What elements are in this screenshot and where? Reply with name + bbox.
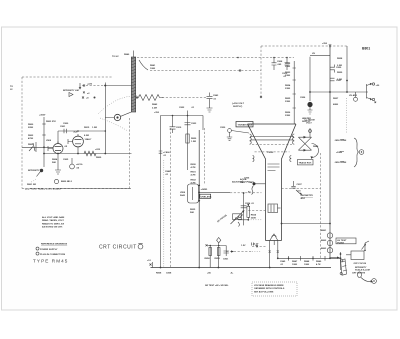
rotary switch wafer <box>340 259 347 275</box>
svg-text:-1850 +DRN: -1850 +DRN <box>334 140 347 142</box>
svg-text:R841: R841 <box>150 64 156 67</box>
svg-text:330K: 330K <box>285 88 291 90</box>
junction dot <box>104 85 106 87</box>
wire dashed y97 row <box>82 92 96 100</box>
wire bottom edge label FRONT PANEL CONT BOARD <box>25 188 131 191</box>
heater rail y258 <box>277 257 341 259</box>
boxed note typical voltage <box>236 122 253 127</box>
svg-text:VOLTAGE READINGS WERE: VOLTAGE READINGS WERE <box>254 284 284 287</box>
tube V800B <box>73 132 92 147</box>
grid cap connection <box>244 178 266 195</box>
svg-text:POINT: POINT <box>337 242 344 244</box>
svg-text:4.7K: 4.7K <box>316 263 321 266</box>
label C821 on x161 <box>159 151 171 157</box>
resistor R840 HV bleeder hatched strip <box>112 51 136 113</box>
svg-text:B863: B863 <box>321 248 327 250</box>
svg-text:C845: C845 <box>280 260 286 263</box>
reference drawings block <box>36 243 68 257</box>
tube V859 envelope box <box>180 184 199 203</box>
svg-text:HV ADJ: HV ADJ <box>349 94 358 97</box>
svg-text:R823: R823 <box>285 72 291 74</box>
labels under cathode <box>52 158 69 164</box>
svg-text:CRT LIGHTS: CRT LIGHTS <box>352 273 366 275</box>
svg-text:PLUG-IN CONNECTORS: PLUG-IN CONNECTORS <box>40 254 66 256</box>
svg-text:2.2M: 2.2M <box>152 107 157 109</box>
svg-text:GEOMETRY: GEOMETRY <box>301 195 314 197</box>
svg-text:C822: C822 <box>179 107 185 109</box>
dashed feeder x261 <box>260 46 262 97</box>
svg-text:+350: +350 <box>322 43 328 45</box>
svg-text:B800 NE-2: B800 NE-2 <box>61 181 73 183</box>
svg-text:R805: R805 <box>28 144 34 146</box>
wire cathode rail y153 <box>44 147 132 155</box>
svg-text:C830: C830 <box>220 127 226 129</box>
label adjusted-to leader <box>232 181 254 184</box>
svg-text:-1850 +DRN: -1850 +DRN <box>334 162 347 164</box>
svg-text:TRACE ROT.: TRACE ROT. <box>299 162 313 165</box>
potentiometer INTENSITY <box>27 154 44 187</box>
tube pin circle below strip <box>105 112 131 121</box>
svg-text:REFERENCE DRAWINGS: REFERENCE DRAWINGS <box>41 243 68 246</box>
svg-text:SCALE ILLUM: SCALE ILLUM <box>355 268 370 271</box>
svg-text:56K: 56K <box>190 212 194 214</box>
labels under bus left <box>156 273 172 275</box>
dashed bus y46 <box>261 45 347 47</box>
resistor R834 <box>245 202 257 221</box>
svg-text:2.2M: 2.2M <box>337 65 342 67</box>
label grid <box>200 189 212 198</box>
wire long vertical x161 <box>160 116 162 268</box>
svg-text:C843: C843 <box>213 94 219 97</box>
svg-text:R829: R829 <box>337 72 343 74</box>
svg-text:56K: 56K <box>52 162 56 164</box>
resistor R806 zigzag <box>84 151 96 156</box>
svg-text:UNBLANK: UNBLANK <box>201 195 212 198</box>
lamp circle lower <box>54 179 72 183</box>
indicator oval <box>358 272 377 283</box>
focus label rows <box>191 164 197 185</box>
svg-text:T5030: T5030 <box>267 152 274 154</box>
svg-text:R801 2M: R801 2M <box>27 184 36 186</box>
svg-text:SR TEST +6F+ SR SEL: SR TEST +6F+ SR SEL <box>205 285 229 287</box>
junction x-mark on y70 <box>239 70 241 72</box>
svg-text:C808: C808 <box>277 61 283 63</box>
svg-text:1.5M: 1.5M <box>191 141 196 143</box>
main long vertical x330 <box>329 48 331 259</box>
svg-text:100K: 100K <box>292 264 298 266</box>
labels on heater rail <box>280 256 325 266</box>
svg-text:C826: C826 <box>300 97 306 99</box>
intensity limit symbol <box>63 83 81 97</box>
junction dot heater rail <box>288 258 290 260</box>
svg-text:C851: C851 <box>223 259 229 261</box>
CRT base pins <box>269 241 279 253</box>
svg-text:+GRID: +GRID <box>201 189 208 191</box>
svg-text:R838: R838 <box>156 273 162 275</box>
DC FOCUS control <box>217 192 246 225</box>
svg-text:+225: +225 <box>95 149 101 151</box>
deflection connection cluster right of neck <box>291 181 302 196</box>
svg-text:DAG: DAG <box>240 181 245 184</box>
svg-text:SUPPLY): SUPPLY) <box>233 106 243 108</box>
CRT gun electrodes upper <box>268 164 280 171</box>
junction dot rail <box>187 115 189 117</box>
resistor R841 100K label <box>139 60 156 70</box>
svg-text:R847: R847 <box>292 260 298 263</box>
resistor R802 label <box>28 135 46 140</box>
relay box <box>346 251 364 260</box>
tube V822 blob column <box>300 57 313 123</box>
svg-text:R832: R832 <box>191 180 197 182</box>
wire dashed y85 <box>82 84 131 87</box>
svg-text:+DRN: +DRN <box>336 152 342 154</box>
capacitor C843 cluster with ground <box>207 93 220 113</box>
junction dots on x199 <box>198 185 200 187</box>
svg-text:(+,-) FRONT PANEL CONT. BOARD: (+,-) FRONT PANEL CONT. BOARD <box>25 188 61 191</box>
svg-text:330K: 330K <box>285 75 291 77</box>
potentiometer right <box>362 241 370 251</box>
svg-text:R851: R851 <box>215 258 221 260</box>
resistor chain column V822 left labels <box>285 61 296 124</box>
svg-text:B861: B861 <box>321 230 327 232</box>
dotted continuation x346 <box>346 98 348 133</box>
svg-text:R804: R804 <box>52 158 58 161</box>
svg-text:R842: R842 <box>152 103 158 106</box>
svg-text:AS NOTED ON CRT.: AS NOTED ON CRT. <box>42 226 63 229</box>
potentiometer HV ADJ <box>349 92 358 101</box>
svg-text:C819: C819 <box>176 127 182 129</box>
switch labels <box>352 263 370 275</box>
label cathode bottom <box>190 209 196 214</box>
svg-text:2.2M: 2.2M <box>337 79 342 81</box>
svg-text:V859: V859 <box>180 192 186 194</box>
connector plug P801 <box>367 83 380 103</box>
dashed drop x320 <box>320 153 322 259</box>
divider x187 <box>185 116 198 171</box>
svg-text:330K: 330K <box>285 115 291 117</box>
resistor column x347 labels <box>337 46 348 92</box>
svg-text:R820: R820 <box>191 138 197 140</box>
labels for unblanking network <box>205 258 234 275</box>
wire x340 drop <box>340 252 342 270</box>
svg-text:T/GRATICULE: T/GRATICULE <box>238 124 253 127</box>
svg-text:5642: 5642 <box>180 194 186 197</box>
svg-text:C823: C823 <box>191 123 197 125</box>
svg-text:100K: 100K <box>150 68 156 70</box>
svg-text:C837: C837 <box>297 184 303 186</box>
wire vertical x105 <box>104 83 106 154</box>
svg-text:12AU7: 12AU7 <box>85 138 93 141</box>
wire grid stub V800B <box>68 139 73 144</box>
svg-text:C800: C800 <box>63 123 69 125</box>
svg-text:R828: R828 <box>337 58 343 60</box>
svg-text:V800: V800 <box>46 140 52 142</box>
svg-text:R830: R830 <box>191 164 197 166</box>
svg-text:TYPE RM45: TYPE RM45 <box>33 259 68 264</box>
title CRT CIRCUIT <box>99 243 143 250</box>
svg-text:4.7M: 4.7M <box>191 174 196 177</box>
ground bus y268 <box>151 267 332 269</box>
svg-text:TO: TO <box>10 86 13 88</box>
squiggle arrow lower left <box>238 222 239 227</box>
wire y220 stub <box>233 214 262 220</box>
capacitor C810 <box>282 57 290 78</box>
wire dashed x170.5 <box>170 128 172 268</box>
wire grid line y192 to CRT <box>199 191 261 193</box>
svg-text:(+) GEOM: (+) GEOM <box>305 120 315 122</box>
svg-text:ALL VOLT. AND GAIN: ALL VOLT. AND GAIN <box>42 216 65 219</box>
svg-text:B801: B801 <box>362 47 370 51</box>
svg-text:+C824: +C824 <box>163 151 170 154</box>
svg-text:READ. TAKEN, VOLT.: READ. TAKEN, VOLT. <box>42 219 64 222</box>
svg-text:R826: R826 <box>285 112 291 114</box>
svg-text:CRT CIRCUIT: CRT CIRCUIT <box>99 245 137 251</box>
svg-text:8.2M: 8.2M <box>84 135 89 137</box>
neon indicators column on x330 <box>321 230 333 253</box>
CRT deflection plates <box>250 134 295 162</box>
junction x-mark y92 <box>83 92 85 94</box>
wire bottom right from x330 <box>330 257 340 259</box>
svg-text:HV: HV <box>312 53 316 55</box>
wire +350 feed x44 <box>39 115 46 154</box>
wire dashed bus y70 <box>150 70 261 72</box>
svg-text:B862: B862 <box>321 240 327 242</box>
svg-text:R850: R850 <box>205 258 211 260</box>
tube V800A <box>46 140 63 154</box>
label under trace rotation <box>301 195 314 200</box>
svg-text:C834 .01: C834 .01 <box>245 202 255 205</box>
svg-text:330K: 330K <box>285 66 291 68</box>
svg-text:R803 27K: R803 27K <box>46 121 56 123</box>
boxed label geometry adj <box>336 238 356 244</box>
wire pin to bus <box>269 252 271 268</box>
svg-text:R825: R825 <box>285 98 291 100</box>
svg-text:POWER SUPPLY: POWER SUPPLY <box>40 249 58 251</box>
svg-text:C805: C805 <box>63 159 69 161</box>
svg-text:OFF FOCUS: OFF FOCUS <box>354 263 367 265</box>
pin list brace with three rows <box>334 138 364 167</box>
svg-text:470K: 470K <box>28 137 34 140</box>
wire pot line y147 <box>22 142 53 152</box>
ground below V800A <box>55 154 61 175</box>
wire pin to heater rail <box>277 252 279 259</box>
CRT funnel <box>248 124 297 241</box>
svg-text:OBTAINED WITH CONTROLS: OBTAINED WITH CONTROLS <box>254 287 285 290</box>
test point circle <box>70 158 83 170</box>
junction dot rail <box>172 115 174 117</box>
junction dot <box>43 146 45 148</box>
svg-text:R840: R840 <box>124 53 130 56</box>
unblanking network above bus <box>206 238 253 268</box>
svg-text:(+350 VOLT: (+350 VOLT <box>232 103 245 105</box>
wire y188 dashes right of neck <box>282 188 321 190</box>
label over boxed note <box>232 103 245 108</box>
svg-text:R809: R809 <box>96 157 102 159</box>
svg-text:INTENSITY LIM: INTENSITY LIM <box>63 90 79 92</box>
svg-text:C838: C838 <box>166 273 172 275</box>
svg-text:+A 5%: +A 5% <box>76 163 83 166</box>
svg-text:4.7M: 4.7M <box>191 166 196 169</box>
svg-text:R848: R848 <box>304 260 310 263</box>
heater voltage label <box>252 244 266 252</box>
wire dashed x163.8 <box>163 160 165 268</box>
svg-text:R815: R815 <box>84 127 90 129</box>
wire dashed bus y57 <box>137 57 294 59</box>
svg-text:+350V: +350V <box>39 115 46 117</box>
svg-text:1.5V: 1.5V <box>241 245 246 247</box>
dotted notes box <box>252 282 297 296</box>
CRT gun electrode box <box>268 204 281 213</box>
svg-text:1.2M: 1.2M <box>92 127 97 129</box>
terminal circle with ground near funnel <box>220 127 249 141</box>
svg-text:100K: 100K <box>304 264 310 266</box>
label 1.5v cage <box>241 243 258 248</box>
svg-text:ADJ: ADJ <box>301 197 306 200</box>
capacitor C820 on x330 <box>330 65 342 107</box>
svg-text:C801: C801 <box>60 126 66 128</box>
svg-text:C820: C820 <box>336 67 342 69</box>
wire y92 <box>310 91 368 93</box>
svg-text:+350: +350 <box>154 112 160 114</box>
wire plate rail y131 <box>58 130 105 143</box>
svg-text:R849: R849 <box>316 260 322 263</box>
svg-text:R834: R834 <box>251 214 257 217</box>
svg-text:680K: 680K <box>333 104 339 106</box>
svg-text:R835: R835 <box>190 209 196 211</box>
svg-text:220K: 220K <box>28 127 34 129</box>
svg-text:R831: R831 <box>191 172 197 174</box>
stub x203 <box>202 116 204 131</box>
svg-text:VOLT: VOLT <box>306 123 312 125</box>
svg-text:+225: +225 <box>87 84 93 86</box>
wire grid stub V800A <box>48 146 53 151</box>
wire long vertical x199 <box>198 130 200 268</box>
resistor R815 label box <box>84 127 97 129</box>
svg-text:330K: 330K <box>251 218 257 220</box>
trace rotation X coil <box>298 120 319 160</box>
aquadag label <box>240 178 247 184</box>
junction dot heater rail <box>312 258 314 260</box>
svg-text:R846: R846 <box>313 145 319 148</box>
wire focus into neck <box>248 210 265 212</box>
trace rotation label box <box>298 160 314 165</box>
wire aquadag y223.5 <box>281 223 331 225</box>
notes paragraph left <box>42 216 65 229</box>
svg-text:R800: R800 <box>28 124 34 126</box>
resistor R842 zigzag <box>98 95 206 132</box>
svg-text:R824: R824 <box>285 84 291 87</box>
bus left terminator <box>147 260 153 268</box>
svg-text:AQUA: AQUA <box>240 178 247 181</box>
svg-text:330K: 330K <box>285 101 291 103</box>
svg-text:R827: R827 <box>333 98 339 100</box>
svg-text:READS TO ZERO, EX: READS TO ZERO, EX <box>42 222 65 225</box>
dashed enclosure front-panel box <box>22 77 130 189</box>
wire dashed x204.7 <box>204 128 206 185</box>
capacitor C819 <box>170 116 183 134</box>
svg-text:R802: R802 <box>28 135 34 137</box>
junction dots unblanking rail <box>209 245 211 247</box>
junction dot <box>43 153 45 155</box>
capacitor C808 <box>272 57 284 70</box>
svg-text:INTENSITY: INTENSITY <box>28 170 40 172</box>
resistor R800 label <box>28 124 46 129</box>
CRT heater <box>270 234 278 241</box>
svg-text:SET AS FOLLOWS: SET AS FOLLOWS <box>254 290 274 293</box>
svg-text:C840: C840 <box>165 170 171 173</box>
wire y55 <box>310 54 330 56</box>
leader curve lower <box>100 118 128 131</box>
svg-text:TO HV: TO HV <box>112 56 119 58</box>
capacitor C801 on rail <box>60 126 66 133</box>
svg-text:R822: R822 <box>285 63 291 65</box>
wire top rail y115 <box>154 107 203 116</box>
